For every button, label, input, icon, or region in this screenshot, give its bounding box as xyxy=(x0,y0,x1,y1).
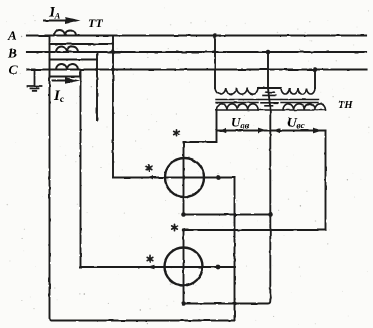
wire phase line C xyxy=(27,68,366,70)
wattmeter W1 xyxy=(165,158,204,197)
polarity asterisk W2 voltage coil xyxy=(172,224,178,230)
polarity tick W1 current line xyxy=(146,175,154,180)
wire W2 current coil line xyxy=(81,266,236,268)
arrowhead Uab left small xyxy=(220,128,227,133)
polarity tick W2 current line xyxy=(147,265,155,270)
voltage transformer TH left secondary winding xyxy=(217,104,259,110)
current transformer TT phase A secondary loop xyxy=(50,43,114,45)
node TH tap A xyxy=(213,33,218,38)
TH core center grounding bars xyxy=(259,92,280,106)
wire W1 bottom to TH secondary b-lead xyxy=(184,214,271,216)
polarity asterisk W2 current coil xyxy=(147,256,153,262)
node crossing blob CT-A lead / line C xyxy=(111,68,115,72)
current transformer TT phase B coil xyxy=(56,47,78,52)
wire W1 current coil line xyxy=(113,177,235,179)
node TH tap B xyxy=(266,50,271,55)
wattmeter W2 xyxy=(165,248,203,286)
arrow current Ic xyxy=(53,80,69,82)
node current-voltage common crossing xyxy=(233,302,237,306)
wire TH center secondary lead down and left to W2 bottom xyxy=(184,88,271,304)
arrowhead Ubc left small xyxy=(274,128,281,133)
polarity asterisk W1 current coil xyxy=(146,165,152,171)
wire TH primary middle connector xyxy=(258,87,281,89)
node W2 top corner xyxy=(182,228,185,231)
wire phase line B xyxy=(27,51,366,53)
wire voltage arrow bus xyxy=(217,130,326,132)
TH core lines left xyxy=(216,100,258,103)
svg-text:А: А xyxy=(7,28,17,43)
wire CT-A right lead down to wattmeter 1 xyxy=(112,36,114,178)
voltage transformer TH left primary winding xyxy=(215,88,258,94)
wire W1 voltage coil vertical xyxy=(183,142,185,215)
wire CT-B right lead (stub) xyxy=(96,52,98,121)
wire W1 top jog to TH secondary a-terminal xyxy=(184,110,217,142)
wire TH primary tap phase A xyxy=(214,36,216,89)
wire W2 top to TH secondary c-terminal xyxy=(184,229,326,231)
wire W1 current return down to bottom bus xyxy=(234,178,236,321)
current transformer TT phase B secondary loop xyxy=(50,59,98,61)
svg-text:С: С xyxy=(9,62,18,77)
node W1 current terminal xyxy=(216,175,221,180)
arrow current Ia xyxy=(44,20,69,22)
TH core lines right xyxy=(281,100,318,103)
wire CT-C right lead down to wattmeter 2 xyxy=(80,70,82,268)
svg-text:ТН: ТН xyxy=(338,100,353,111)
current transformer TT phase A coil xyxy=(54,30,76,36)
node TH tap C xyxy=(313,67,318,72)
arrowhead Ubc right xyxy=(313,128,322,134)
node W2 bottom junction xyxy=(181,301,186,306)
arrowhead Ia xyxy=(65,17,81,24)
node W1 bottom corner xyxy=(181,212,186,217)
current transformer TT phase C coil xyxy=(56,64,78,70)
voltage transformer TH right primary winding xyxy=(281,88,315,94)
wire CT common left lead down to bottom bus xyxy=(50,36,53,321)
polarity asterisk W1 voltage coil xyxy=(174,130,180,136)
svg-text:ТТ: ТТ xyxy=(88,16,103,30)
arrowhead Ic xyxy=(65,77,80,84)
wire TH secondary baseline xyxy=(217,109,326,111)
node crossing blob CT-A lead / line B xyxy=(111,50,115,54)
current transformer TT phase C secondary loop xyxy=(50,76,81,78)
node W1 bottom wire to TH b-lead xyxy=(268,212,273,217)
wire phase line A xyxy=(27,34,366,36)
node W2 current terminal xyxy=(216,265,221,270)
wire TH primary tap phase C xyxy=(314,70,316,89)
svg-text:В: В xyxy=(7,46,17,61)
ground xyxy=(28,70,42,91)
wire TH primary tap phase B xyxy=(267,52,269,88)
voltage transformer TH right secondary winding xyxy=(283,104,325,110)
arrowhead Uab right xyxy=(258,128,267,134)
wire bottom bus xyxy=(52,320,235,322)
wire TH right secondary lead down xyxy=(325,131,327,231)
wire W2 voltage coil vertical xyxy=(183,230,185,304)
